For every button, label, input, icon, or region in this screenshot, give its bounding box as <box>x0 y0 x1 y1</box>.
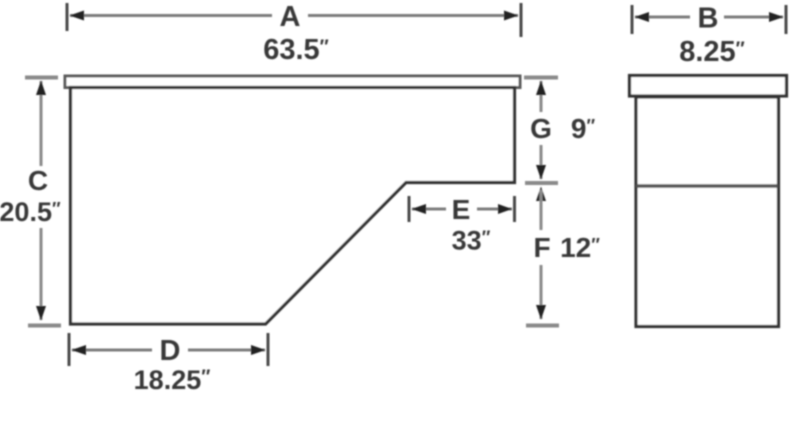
dimension C bottom tick <box>28 324 61 328</box>
dimension A line left segment <box>70 14 272 17</box>
dimension D extension tick left <box>68 333 71 366</box>
dimension A extension tick right <box>520 3 523 37</box>
dimension E extension tick right <box>513 196 516 222</box>
svg-text:18.25″: 18.25″ <box>134 365 211 395</box>
svg-text:C: C <box>28 165 48 196</box>
side profile body outline <box>71 88 515 325</box>
dimension B extension tick right <box>785 5 788 34</box>
dimension B line left segment <box>635 16 690 19</box>
end profile lid <box>630 76 787 97</box>
svg-text:8.25″: 8.25″ <box>679 36 745 68</box>
dimension D line left segment <box>72 349 152 352</box>
svg-text:63.5″: 63.5″ <box>263 34 329 66</box>
svg-text:A: A <box>280 1 301 33</box>
svg-text:12″: 12″ <box>560 232 600 263</box>
dimension A arrow left <box>70 11 85 21</box>
dimension E line left segment <box>412 208 446 211</box>
dimension E arrow right <box>498 204 512 214</box>
dimension G line upper <box>540 81 543 112</box>
svg-text:D: D <box>160 335 181 367</box>
dimension F arrow up <box>536 187 546 202</box>
dimension G top tick <box>524 76 558 80</box>
dimension E arrow left <box>412 204 427 214</box>
dimension B extension tick left <box>631 5 634 34</box>
dimension A extension tick left <box>66 3 69 31</box>
dimension G arrow up <box>536 81 546 96</box>
svg-text:B: B <box>698 3 719 35</box>
dimension A arrow right <box>504 11 519 21</box>
dimension C arrow up <box>36 81 46 96</box>
dimension B arrow left <box>635 12 650 22</box>
svg-text:9″: 9″ <box>571 113 596 144</box>
dimension G bottom tick / ledge tick <box>525 181 558 185</box>
svg-text:20.5″: 20.5″ <box>0 197 61 227</box>
dimension C line upper <box>40 81 43 166</box>
side profile lid <box>65 76 520 88</box>
dimension G line lower <box>540 145 543 179</box>
svg-text:G: G <box>530 113 552 144</box>
dimension F line lower <box>540 265 543 319</box>
dimension D arrow left <box>72 345 87 355</box>
dimension E line right segment <box>477 208 512 211</box>
dimension D arrow right <box>251 345 266 355</box>
dimension G arrow down <box>536 165 546 180</box>
svg-text:E: E <box>452 194 471 225</box>
dimension F bottom tick <box>526 324 559 328</box>
dimension F arrow down <box>536 305 546 320</box>
end profile divider line <box>636 184 778 188</box>
dimension F line upper <box>540 190 543 230</box>
svg-text:33″: 33″ <box>452 226 491 256</box>
dimension B arrow right <box>769 12 784 22</box>
dimension C top tick <box>25 76 58 80</box>
dimension E extension tick left <box>408 196 411 222</box>
dimension D line right segment <box>188 349 265 352</box>
dimension D extension tick right <box>267 333 270 366</box>
dimension B line right segment <box>724 16 783 19</box>
end profile body <box>636 97 779 327</box>
dimension C arrow down <box>36 306 46 321</box>
dimension C line lower <box>40 228 43 320</box>
dimension A line right segment <box>308 14 518 17</box>
svg-text:F: F <box>533 232 550 263</box>
